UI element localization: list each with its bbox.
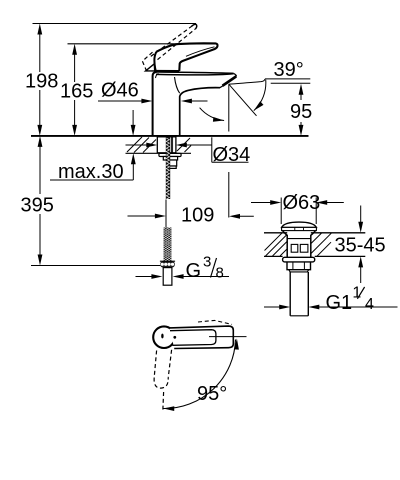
handle open tip [192, 24, 197, 29]
dimension 198 [37, 24, 42, 136]
drain flange [283, 257, 315, 262]
svg-text:G: G [186, 260, 202, 282]
angle arc right [254, 80, 266, 111]
drain body [283, 231, 316, 258]
mounting nut [163, 157, 177, 161]
dimension 95 [299, 84, 304, 136]
wire label underline [265, 78, 310, 80]
wire extension line hose centre [165, 200, 167, 228]
dimension 165 [72, 44, 77, 136]
svg-text:165: 165 [60, 81, 93, 103]
dimension diameter 34 [126, 137, 249, 162]
faucet shank [157, 137, 176, 153]
braided hose [164, 224, 172, 266]
dashed outline over lever end [198, 320, 232, 324]
dimension 35-45 [358, 206, 363, 284]
handle rotated position dashed [154, 350, 171, 412]
wire hose end reference line [31, 265, 160, 267]
95 degree arc [163, 340, 235, 409]
arc arrowheads [234, 339, 239, 350]
angle arc left [200, 108, 225, 121]
drain tailpipe [290, 272, 308, 316]
svg-text:Ø46: Ø46 [101, 80, 139, 102]
handle top view: lever inner face [170, 330, 216, 346]
svg-text:198: 198 [25, 71, 58, 93]
svg-text:G1: G1 [326, 292, 353, 314]
dimension diameter 46 [98, 99, 208, 104]
svg-text:395: 395 [21, 195, 54, 217]
faucet body [153, 72, 220, 136]
svg-text:39°: 39° [274, 59, 304, 81]
hose nut G3/8 [160, 261, 175, 267]
wire drain countertop bottom line [264, 255, 283, 257]
39 degree annotation [200, 79, 311, 132]
wire drain countertop top line [264, 233, 365, 257]
svg-text:95°: 95° [197, 383, 227, 405]
drain countertop hatching [265, 233, 332, 256]
dimension max.30 [50, 110, 136, 180]
handle (open, dashed) [142, 26, 195, 70]
hose connector step 1 [167, 160, 177, 166]
svg-text:35-45: 35-45 [335, 235, 386, 257]
hose connector step 2 [169, 166, 176, 168]
wire extension line spout outlet [228, 172, 230, 218]
drain dome cap [282, 222, 317, 231]
handle top view: cap circle [153, 326, 175, 348]
wire countertop surface line [31, 135, 309, 137]
dimension 395 [38, 136, 43, 266]
faucet spout [156, 72, 236, 76]
handle top view: lever outline [170, 326, 234, 348]
svg-text:Ø34: Ø34 [213, 144, 251, 166]
svg-text:Ø63: Ø63 [283, 192, 321, 214]
dimension diameter 63 [251, 198, 344, 225]
svg-text:95: 95 [290, 101, 312, 123]
aerator [223, 76, 237, 85]
threaded rod [166, 137, 170, 199]
wire flow direction line [229, 84, 257, 116]
svg-text:109: 109 [181, 205, 214, 227]
dimension G3/8 [136, 274, 230, 279]
dimension G1 1/4 [264, 305, 398, 310]
countertop hatching left of faucet [127, 137, 191, 153]
handle detail dots [161, 334, 163, 339]
wire top reference line (open handle height) [33, 23, 197, 25]
wire vertical reference through outlet [228, 84, 230, 131]
wire 95 top reference line [271, 82, 311, 84]
drain nut [287, 262, 311, 272]
svg-text:3: 3 [203, 254, 211, 271]
wire horizontal reference line [209, 336, 247, 338]
svg-text:8: 8 [216, 265, 224, 282]
svg-text:4: 4 [365, 296, 374, 313]
svg-text:max.30: max.30 [58, 161, 124, 183]
handle (closed, solid) [146, 43, 218, 71]
svg-text:1: 1 [352, 285, 361, 302]
dimension 109 [128, 172, 254, 228]
wire countertop bottom line [126, 152, 192, 154]
hose end tube [163, 268, 172, 286]
wire leader aerator to label [229, 79, 265, 84]
wire 165 reference line (closed handle height) [68, 43, 216, 45]
washer [159, 153, 181, 156]
